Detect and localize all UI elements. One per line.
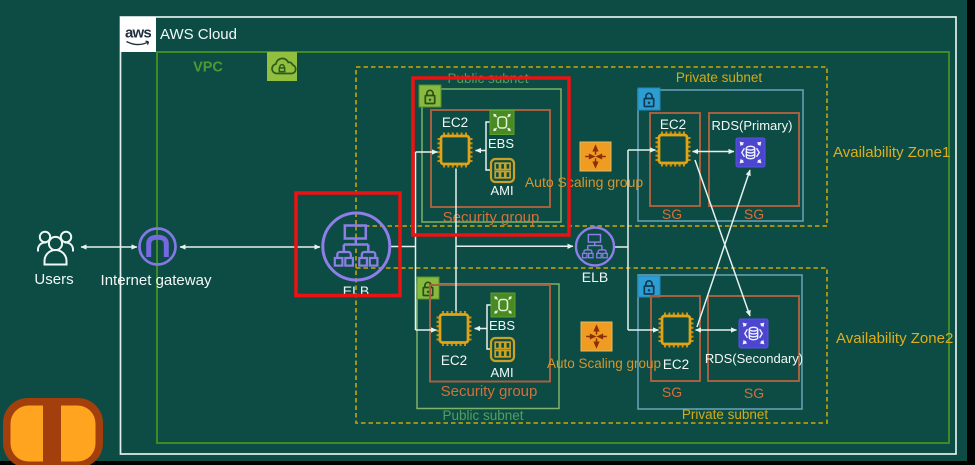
svg-text:Public subnet: Public subnet bbox=[442, 408, 523, 423]
wire arrow into EC2 top from bracket bbox=[476, 150, 482, 152]
dashed connector between AZ boxes bbox=[355, 226, 357, 268]
svg-text:Security group: Security group bbox=[441, 383, 538, 400]
EBS icon (top public) bbox=[490, 111, 514, 135]
svg-text:aws: aws bbox=[125, 25, 151, 42]
wire Internet gateway to ELB bbox=[180, 246, 320, 248]
wire EC2 to RDS bottom private bbox=[696, 329, 737, 331]
VPC border box bbox=[157, 52, 949, 443]
users icon bbox=[38, 232, 73, 265]
RDS icon (primary) bbox=[736, 138, 765, 167]
wire Users to Internet gateway bbox=[81, 246, 137, 248]
auto scaling group icon (bottom) bbox=[581, 322, 612, 351]
EBS icon (bottom public) bbox=[491, 293, 515, 317]
wire EC2 to RDS top private bbox=[693, 151, 735, 153]
wire ELB to public riser bbox=[390, 246, 416, 248]
svg-text:AMI: AMI bbox=[490, 183, 513, 198]
orange logo bottom left bbox=[3, 398, 103, 465]
internet gateway icon bbox=[140, 229, 176, 265]
AMI icon (bottom public) bbox=[491, 338, 514, 361]
AMI icon (top public) bbox=[491, 159, 514, 182]
EC2 icon (bottom private) bbox=[659, 313, 694, 348]
svg-text:Internet gateway: Internet gateway bbox=[101, 272, 212, 289]
SG box RDS (top private) bbox=[709, 113, 799, 206]
private subnet container (top) bbox=[638, 90, 803, 221]
security group box (bottom public) bbox=[430, 285, 550, 382]
red highlight box around ELB bbox=[296, 193, 400, 296]
svg-text:Availability Zone2: Availability Zone2 bbox=[836, 330, 953, 347]
aws logo box bbox=[120, 17, 156, 52]
svg-text:Private subnet: Private subnet bbox=[676, 70, 763, 85]
private subnet lock icon (top) bbox=[638, 88, 660, 110]
SG box RDS (bottom private) bbox=[708, 296, 799, 381]
wire small ELB to private riser bbox=[614, 246, 628, 248]
wire branch to EC2 top public bbox=[416, 151, 438, 153]
svg-text:ELB: ELB bbox=[582, 269, 608, 285]
svg-text:EC2: EC2 bbox=[660, 117, 686, 132]
wire branch to EC2 bottom public bbox=[416, 329, 437, 331]
SG box EC2 (top private) bbox=[650, 113, 700, 206]
svg-text:Security group: Security group bbox=[443, 209, 540, 226]
ELB small circle icon bbox=[576, 228, 614, 266]
SG box EC2 (bottom private) bbox=[651, 296, 700, 381]
EC2 icon (top public) bbox=[438, 133, 473, 168]
black bar right edge bbox=[967, 0, 975, 465]
VPC icon bbox=[267, 52, 297, 81]
svg-text:EC2: EC2 bbox=[442, 115, 468, 130]
wire private riser C bbox=[627, 150, 629, 330]
public subnet container (top) bbox=[422, 89, 561, 222]
svg-text:SG: SG bbox=[744, 385, 764, 401]
svg-text:AMI: AMI bbox=[490, 365, 513, 380]
RDS icon (secondary) bbox=[739, 319, 768, 348]
wire public riser B (EC2 to small ELB) bbox=[455, 169, 457, 312]
wire riser B to small ELB bbox=[456, 245, 573, 247]
EC2 icon (top private) bbox=[656, 132, 691, 167]
wire diagonal EC2 bottom to RDS top bbox=[697, 170, 750, 327]
svg-text:EBS: EBS bbox=[489, 318, 515, 333]
svg-text:VPC: VPC bbox=[193, 60, 223, 76]
svg-text:Auto Scaling group: Auto Scaling group bbox=[525, 174, 644, 190]
svg-text:EBS: EBS bbox=[488, 136, 514, 151]
availability zone 1 dashed box bbox=[356, 67, 827, 226]
wire bracket EBS AMI top bbox=[479, 122, 491, 170]
wire bracket EBS AMI bottom bbox=[479, 305, 491, 349]
black bar bottom edge bbox=[0, 461, 975, 465]
svg-text:SG: SG bbox=[662, 206, 682, 222]
red highlight box around top security group bbox=[413, 78, 569, 235]
public subnet lock icon (top) bbox=[419, 85, 441, 107]
svg-text:RDS(Primary): RDS(Primary) bbox=[712, 118, 793, 133]
svg-text:EC2: EC2 bbox=[441, 353, 467, 368]
svg-text:AWS Cloud: AWS Cloud bbox=[160, 26, 237, 43]
svg-text:EC2: EC2 bbox=[663, 357, 689, 372]
wire arrow into EC2 bottom from bracket bbox=[475, 328, 482, 330]
public subnet lock icon (bottom) bbox=[417, 277, 439, 299]
svg-text:Auto Scaling group: Auto Scaling group bbox=[547, 356, 661, 371]
public subnet container (bottom) bbox=[417, 284, 559, 409]
wire diagonal EC2 top to RDS bottom bbox=[695, 160, 750, 316]
svg-text:Availability Zone1: Availability Zone1 bbox=[833, 144, 950, 161]
private subnet container (bottom) bbox=[638, 275, 802, 409]
wire public riser A bbox=[415, 152, 417, 330]
wire branch to EC2 top private bbox=[628, 149, 656, 151]
svg-text:Users: Users bbox=[34, 271, 73, 288]
ELB big circle icon bbox=[323, 213, 390, 280]
auto scaling group icon (top) bbox=[580, 142, 611, 171]
wire branch to EC2 bottom private bbox=[628, 329, 659, 331]
EC2 icon (bottom public) bbox=[437, 311, 472, 346]
svg-text:SG: SG bbox=[744, 206, 764, 222]
private subnet lock icon (bottom) bbox=[638, 276, 660, 297]
svg-text:SG: SG bbox=[662, 384, 682, 400]
security group box (top public) bbox=[431, 110, 550, 207]
svg-text:RDS(Secondary): RDS(Secondary) bbox=[705, 351, 803, 366]
availability zone 2 dashed box bbox=[356, 268, 827, 423]
